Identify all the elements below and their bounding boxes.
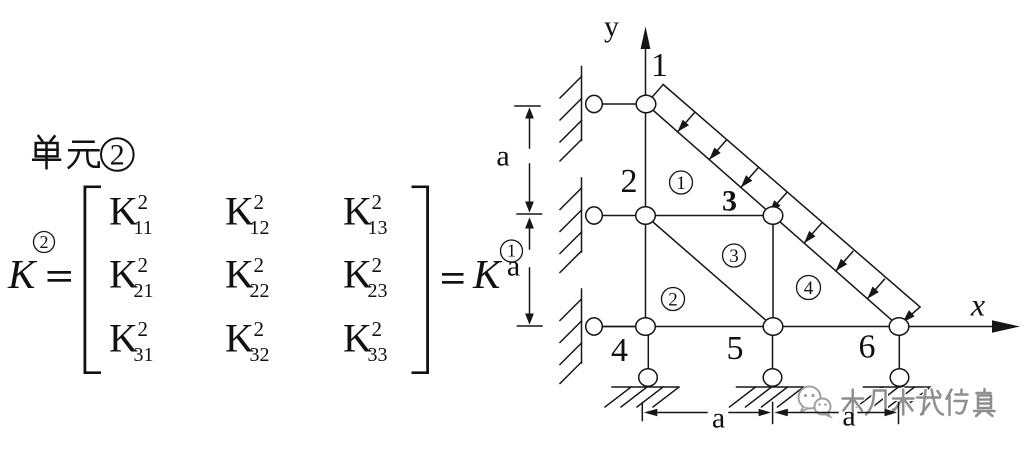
svg-text:2: 2 — [372, 190, 383, 214]
svg-text:2: 2 — [254, 317, 265, 341]
wire N2-N3 — [646, 215, 774, 217]
svg-text:y: y — [604, 10, 619, 43]
K superscript circled-2 — [34, 232, 55, 253]
wm char 木 (1) — [843, 390, 864, 415]
svg-text:x: x — [970, 287, 985, 323]
x-axis — [602, 326, 995, 328]
node 3 circle — [763, 207, 783, 225]
wm char 木 (2) — [893, 390, 914, 415]
svg-text:2: 2 — [138, 253, 149, 277]
svg-text:1: 1 — [676, 173, 686, 194]
svg-text:2: 2 — [621, 163, 638, 200]
svg-text:a: a — [712, 402, 725, 435]
wm char 木 (1) — [843, 390, 864, 415]
wm char 真 — [974, 389, 995, 416]
wm char 木 (2) — [893, 390, 914, 415]
left dimension shafts — [529, 114, 531, 148]
equals rhs — [442, 273, 464, 276]
svg-text:a: a — [496, 140, 509, 173]
svg-text:2: 2 — [40, 232, 49, 252]
bottom roller support at node4 — [605, 335, 679, 407]
svg-text:2: 2 — [254, 190, 265, 214]
heading 单元② : char 元 — [69, 142, 99, 168]
element circle 3 — [723, 244, 746, 267]
heading 单元② : circled 2 — [101, 138, 134, 171]
bottom roller support at node5 — [730, 335, 804, 407]
svg-text:32: 32 — [250, 344, 270, 366]
svg-text:a: a — [842, 400, 855, 433]
node 2 circle — [636, 207, 656, 225]
svg-text:K: K — [472, 251, 503, 297]
K rhs superscript circled-1 — [501, 240, 523, 262]
left dimension arrowheads — [525, 107, 534, 324]
svg-text:2: 2 — [254, 253, 265, 277]
load arrowheads — [678, 120, 915, 323]
matrix left bracket — [84, 186, 102, 375]
watermark logo bubbles — [799, 387, 831, 417]
svg-text:3: 3 — [722, 185, 737, 218]
svg-text:4: 4 — [804, 278, 814, 299]
left roller support at node1 — [560, 67, 637, 162]
wm char 仿 — [947, 390, 968, 416]
element circle 4 — [797, 276, 821, 300]
node 5 circle — [763, 318, 783, 336]
svg-text:13: 13 — [368, 217, 388, 239]
wm char 戒 — [917, 390, 943, 415]
left roller support at node4 — [560, 289, 637, 384]
load band outer edge — [663, 85, 920, 308]
svg-text:2: 2 — [138, 190, 149, 214]
bottom dimension 2 — [788, 403, 899, 424]
wm char 几 — [866, 391, 893, 415]
bottom roller support at node6 — [857, 335, 931, 407]
svg-text:3: 3 — [729, 246, 739, 267]
wire diagonal N2-N5 — [646, 216, 774, 327]
matrix right bracket — [412, 186, 430, 375]
svg-text:2: 2 — [138, 317, 149, 341]
node 4 circle — [636, 318, 656, 336]
y-axis arrowhead — [641, 27, 651, 50]
svg-text:a: a — [507, 250, 520, 283]
element circle 1 — [670, 171, 693, 194]
svg-text:2: 2 — [668, 290, 678, 311]
wire N3-N5 — [772, 216, 774, 327]
svg-text:33: 33 — [368, 344, 388, 366]
svg-text:12: 12 — [250, 217, 270, 239]
y-axis — [645, 45, 647, 327]
x-axis arrowhead — [992, 320, 1020, 333]
svg-text:4: 4 — [611, 332, 628, 369]
svg-text:11: 11 — [134, 217, 153, 239]
svg-text:5: 5 — [727, 330, 744, 367]
heading 单元② : char 单 — [33, 136, 60, 168]
svg-text:K: K — [7, 251, 38, 297]
svg-text:31: 31 — [134, 344, 154, 366]
wire hypotenuse N1-N6 — [646, 104, 899, 327]
wm char 几 — [866, 391, 893, 415]
equals lhs — [48, 271, 72, 274]
wm char 仿 — [947, 390, 968, 416]
svg-text:22: 22 — [250, 280, 270, 302]
node 1 circle — [636, 95, 656, 113]
svg-text:23: 23 — [368, 280, 388, 302]
load band bottom closing edge — [904, 307, 921, 322]
bottom dimension 1 — [642, 403, 772, 424]
element circle 2 — [662, 288, 685, 311]
svg-text:21: 21 — [134, 280, 154, 302]
svg-text:6: 6 — [859, 329, 876, 366]
svg-text:1: 1 — [651, 47, 668, 84]
wm char 真 — [974, 389, 995, 416]
svg-text:2: 2 — [372, 253, 383, 277]
node 6 circle — [889, 318, 909, 336]
svg-text:2: 2 — [372, 317, 383, 341]
load arrow shafts — [678, 112, 695, 132]
left dimension line ticks — [515, 106, 542, 326]
svg-text:2: 2 — [110, 139, 125, 172]
load band top closing edge — [646, 85, 663, 105]
left roller support at node2 — [560, 178, 637, 273]
wm char 戒 — [917, 390, 943, 415]
